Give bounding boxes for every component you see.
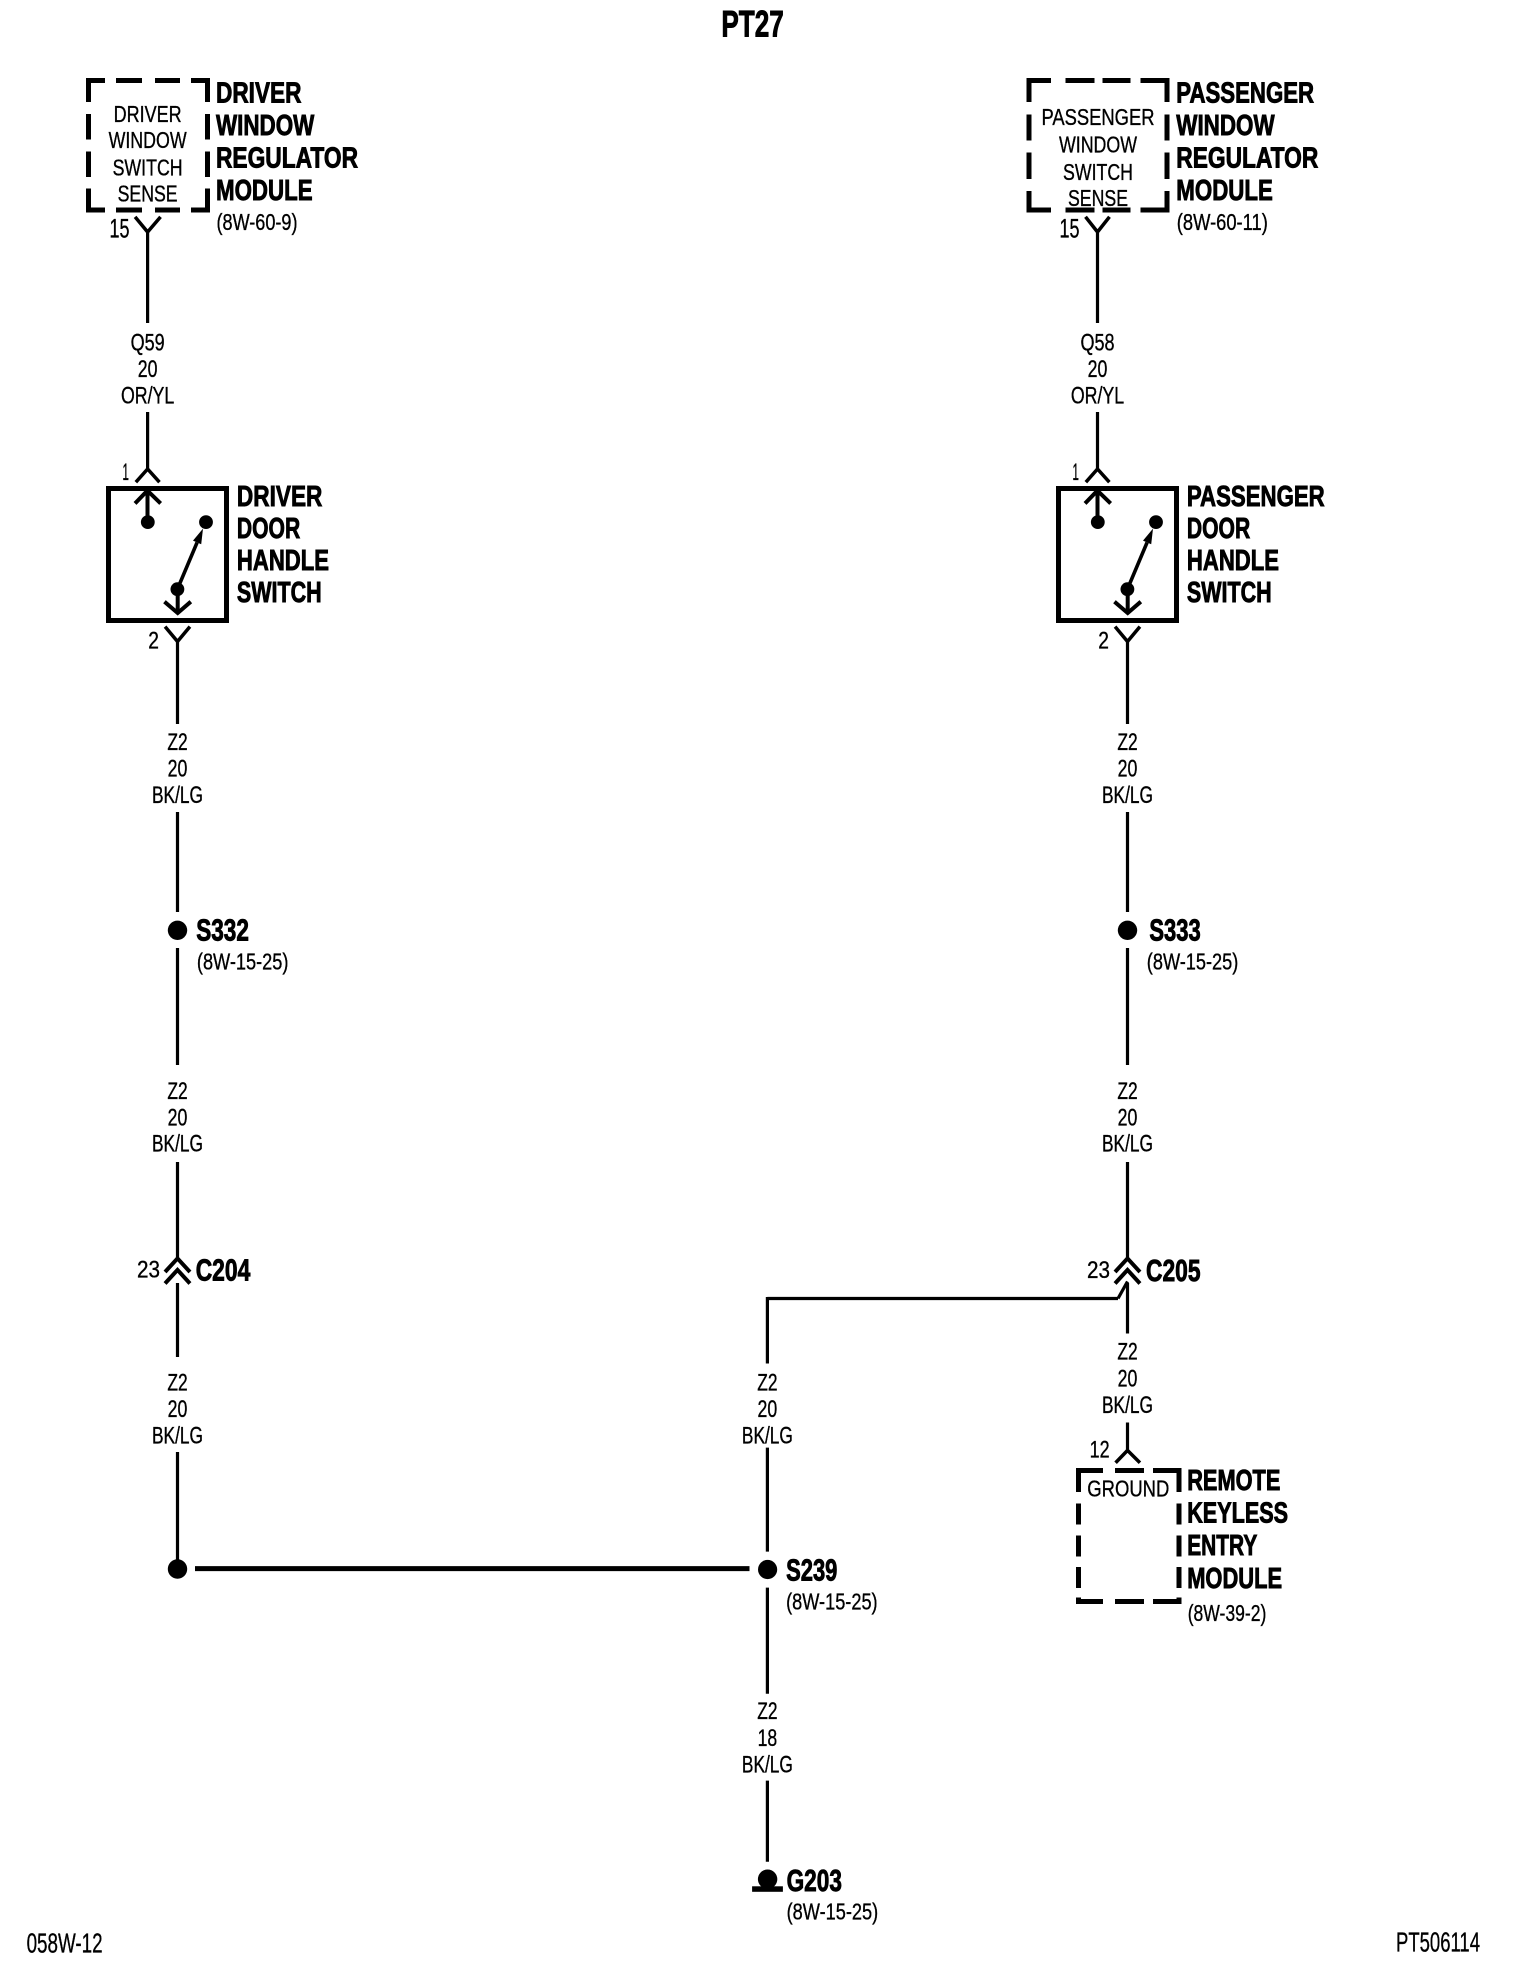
svg-text:1: 1 [122,459,129,486]
svg-text:OR/YL: OR/YL [1071,383,1124,410]
svg-text:WINDOW: WINDOW [1176,110,1275,142]
svg-text:15: 15 [110,214,130,244]
svg-text:DOOR: DOOR [237,513,300,545]
svg-text:WINDOW: WINDOW [109,127,187,153]
svg-text:G203: G203 [787,1863,842,1898]
svg-text:20: 20 [758,1396,778,1423]
svg-text:1: 1 [1072,459,1079,486]
svg-text:(8W-39-2): (8W-39-2) [1188,1600,1267,1626]
svg-text:PT506114: PT506114 [1396,1927,1480,1958]
svg-text:WINDOW: WINDOW [216,110,315,142]
svg-text:20: 20 [168,1396,188,1423]
svg-text:C205: C205 [1146,1253,1201,1288]
svg-text:20: 20 [1118,1366,1138,1393]
svg-text:MODULE: MODULE [1187,1563,1282,1595]
svg-text:20: 20 [1088,356,1108,383]
svg-text:ENTRY: ENTRY [1187,1530,1257,1562]
svg-text:23: 23 [137,1257,160,1284]
svg-text:REGULATOR: REGULATOR [1176,143,1318,175]
svg-text:DOOR: DOOR [1187,513,1250,545]
svg-text:HANDLE: HANDLE [1187,545,1279,577]
svg-text:18: 18 [758,1725,778,1752]
svg-text:20: 20 [168,756,188,783]
svg-text:S239: S239 [786,1553,837,1588]
svg-text:BK/LG: BK/LG [1102,782,1153,809]
svg-text:SENSE: SENSE [118,181,178,207]
svg-text:BK/LG: BK/LG [742,1423,793,1450]
svg-text:GROUND: GROUND [1087,1476,1169,1502]
svg-text:058W-12: 058W-12 [27,1928,103,1959]
svg-text:Z2: Z2 [167,729,187,756]
svg-text:DRIVER: DRIVER [114,101,182,127]
svg-text:PASSENGER: PASSENGER [1042,104,1155,130]
svg-text:SWITCH: SWITCH [1063,159,1133,185]
svg-text:PASSENGER: PASSENGER [1176,78,1314,110]
svg-text:Z2: Z2 [1117,729,1137,756]
svg-text:BK/LG: BK/LG [152,1423,203,1450]
svg-text:BK/LG: BK/LG [152,1131,203,1158]
svg-text:Z2: Z2 [757,1698,777,1725]
svg-text:DRIVER: DRIVER [237,481,323,513]
svg-text:BK/LG: BK/LG [152,782,203,809]
svg-text:WINDOW: WINDOW [1059,132,1137,158]
svg-text:Q59: Q59 [131,330,165,357]
svg-text:(8W-15-25): (8W-15-25) [787,1899,879,1925]
svg-text:Q58: Q58 [1081,330,1115,357]
svg-text:20: 20 [168,1105,188,1132]
svg-text:(8W-15-25): (8W-15-25) [1147,949,1239,975]
svg-text:S332: S332 [196,913,249,948]
svg-text:REMOTE: REMOTE [1187,1465,1280,1497]
svg-text:(8W-60-11): (8W-60-11) [1177,209,1268,235]
svg-text:C204: C204 [196,1253,251,1288]
svg-text:SWITCH: SWITCH [237,577,322,609]
svg-text:Z2: Z2 [1117,1339,1137,1366]
svg-text:20: 20 [1118,1105,1138,1132]
svg-text:SWITCH: SWITCH [1187,577,1272,609]
svg-text:BK/LG: BK/LG [742,1752,793,1779]
svg-text:BK/LG: BK/LG [1102,1392,1153,1419]
svg-text:BK/LG: BK/LG [1102,1131,1153,1158]
svg-text:MODULE: MODULE [1176,175,1273,207]
svg-text:12: 12 [1090,1437,1110,1464]
svg-text:MODULE: MODULE [216,175,313,207]
svg-text:20: 20 [138,356,158,383]
svg-text:KEYLESS: KEYLESS [1187,1498,1288,1530]
svg-text:SENSE: SENSE [1068,185,1128,211]
svg-text:REGULATOR: REGULATOR [216,143,358,175]
svg-text:Z2: Z2 [167,1370,187,1397]
svg-text:S333: S333 [1149,913,1200,948]
svg-text:HANDLE: HANDLE [237,545,329,577]
svg-text:OR/YL: OR/YL [121,383,174,410]
svg-text:Z2: Z2 [1117,1078,1137,1105]
svg-text:PASSENGER: PASSENGER [1187,481,1325,513]
svg-text:2: 2 [148,628,159,655]
svg-text:20: 20 [1118,756,1138,783]
svg-text:Z2: Z2 [757,1370,777,1397]
svg-text:Z2: Z2 [167,1078,187,1105]
svg-text:PT27: PT27 [721,4,784,45]
svg-text:2: 2 [1098,628,1109,655]
svg-text:15: 15 [1060,214,1080,244]
svg-text:(8W-15-25): (8W-15-25) [197,949,289,975]
svg-text:(8W-15-25): (8W-15-25) [786,1589,878,1615]
svg-text:23: 23 [1087,1257,1110,1284]
svg-text:(8W-60-9): (8W-60-9) [217,209,298,235]
svg-text:DRIVER: DRIVER [216,78,302,110]
svg-text:SWITCH: SWITCH [113,154,183,180]
